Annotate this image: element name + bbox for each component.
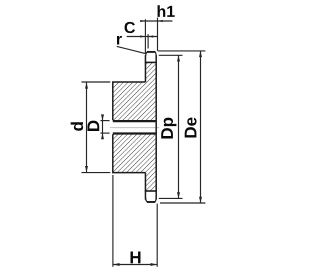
label h1 <box>158 5 175 17</box>
dimension C line with outside arrows <box>127 35 158 37</box>
label d <box>71 122 83 131</box>
dimension Dp line <box>177 55 180 198</box>
dimension d extension bottom <box>82 172 111 174</box>
radius r leader <box>117 46 147 53</box>
top tooth profile <box>146 52 157 56</box>
dimension Dp extension top <box>159 54 183 56</box>
dimension H extension right <box>156 204 158 267</box>
label D <box>88 121 100 131</box>
bore top edge <box>113 120 156 122</box>
dimension h1 extension right <box>157 18 159 51</box>
dimension d line <box>85 82 88 172</box>
label H <box>131 252 141 264</box>
label r <box>117 36 122 45</box>
plate left face <box>144 55 146 199</box>
dimension De line <box>199 51 202 203</box>
dimension De extension bottom <box>160 202 205 204</box>
bore center faint line <box>110 127 159 129</box>
dimension C extension <box>147 34 149 48</box>
hub outline <box>113 82 146 173</box>
plate right face <box>155 55 157 199</box>
dimension H line <box>113 263 157 266</box>
bore white band <box>112 122 156 133</box>
plate cross-section hatch <box>145 63 156 191</box>
dimension h1 extension left <box>144 19 146 53</box>
tooth root line bottom <box>145 190 157 192</box>
bottom tooth profile <box>146 198 156 202</box>
label C <box>125 22 135 33</box>
dimension D line with outside arrows <box>101 114 104 139</box>
dimension H extension left <box>112 175 114 267</box>
tooth root line top <box>145 61 157 63</box>
dimension De extension top <box>158 50 206 52</box>
label De <box>185 118 197 138</box>
dimension D extension bottom tick <box>100 132 109 134</box>
dimension h1 line with outside arrows <box>140 20 172 22</box>
bore bottom edge <box>113 132 156 134</box>
hub cross-section hatch <box>113 83 145 173</box>
dimension d extension top <box>82 81 111 83</box>
dimension D extension top tick <box>100 120 109 122</box>
dimension Dp extension bottom <box>159 197 183 199</box>
label Dp <box>161 118 176 139</box>
